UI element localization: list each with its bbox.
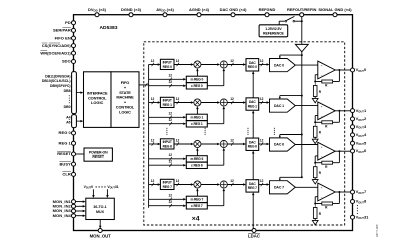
svg-text:DB11(DIN/SDA): DB11(DIN/SDA) xyxy=(45,74,70,78)
svg-text:12: 12 xyxy=(176,179,180,183)
wire: amp output to VOUT7 pin xyxy=(335,191,350,193)
signal ground symbol channel 6 xyxy=(312,180,318,184)
wire: m REG 7 to multiplier xyxy=(196,190,198,196)
block: INTERFACE CONTROL LOGIC xyxy=(84,72,112,128)
svg-text:DB0: DB0 xyxy=(64,105,71,109)
svg-text:12: 12 xyxy=(260,138,264,142)
feedback resistor R channel 6 xyxy=(322,161,333,164)
A bus arrow into interface logic xyxy=(76,120,81,122)
node: reference tap channel 7 xyxy=(301,176,303,178)
svg-text:12: 12 xyxy=(169,74,173,78)
block: FIFO + STATE MACHINE + CONTROL LOGIC xyxy=(111,72,139,128)
svg-text:SIGNAL GND (×4): SIGNAL GND (×4) xyxy=(318,7,352,12)
svg-text:MON_IN4: MON_IN4 xyxy=(53,213,72,218)
feedback resistor R channel 1 xyxy=(322,121,333,124)
wire: MON_IN pin into MUX (y=206.3) xyxy=(75,205,83,207)
wire: bus to input reg 7 xyxy=(149,184,159,186)
wire: attenuator to signal ground channel 1 xyxy=(314,137,316,139)
ellipsis: VOUT8..VOUT31 xyxy=(357,205,358,206)
svg-text:−: − xyxy=(321,154,323,158)
svg-text:12: 12 xyxy=(176,59,180,63)
wire: bus to input reg 0 xyxy=(149,64,159,66)
svg-text:−: − xyxy=(321,73,323,77)
chip outer boundary box xyxy=(74,15,353,231)
register INPUT REG 7 xyxy=(160,179,174,189)
svg-text:12: 12 xyxy=(260,97,264,101)
wire: DAC 0 to output amp xyxy=(295,64,318,66)
svg-text:12: 12 xyxy=(260,179,264,183)
svg-text:REG 0: REG 0 xyxy=(163,65,172,69)
wire: input reg 6 to multiplier xyxy=(174,143,192,145)
wire: attenuator to signal ground channel 7 xyxy=(314,219,316,221)
register m REG 1 xyxy=(186,114,207,120)
wire: m REG 6 input xyxy=(149,158,184,160)
pin VOUT0 (right) xyxy=(351,68,355,72)
svg-text:RESET: RESET xyxy=(92,155,105,159)
svg-text:REG 0: REG 0 xyxy=(59,130,72,135)
svg-text:c REG 7: c REG 7 xyxy=(191,204,203,208)
register c REG 0 xyxy=(186,83,207,89)
svg-text:REFOUT/REFIN: REFOUT/REFIN xyxy=(287,7,316,12)
wire: attenuator to signal ground channel 0 xyxy=(314,97,316,99)
wire: RESET pin to power-on reset block xyxy=(75,153,84,155)
wire: multiplier to adder channel 1 xyxy=(201,102,218,104)
signal ground symbol channel 0 xyxy=(312,98,318,102)
wire: reference distribution line xyxy=(301,52,303,178)
svg-text:MON_OUT: MON_OUT xyxy=(90,233,112,238)
svg-text:REG 1: REG 1 xyxy=(163,103,172,107)
attenuator resistor R channel 1 xyxy=(314,122,316,126)
wire: VOUT31 into MUX xyxy=(106,189,108,196)
svg-text:CS(SYNC/AD0): CS(SYNC/AD0) xyxy=(42,43,72,48)
svg-text:DAC GND (×4): DAC GND (×4) xyxy=(220,7,247,12)
wire: reference line down to buffer xyxy=(301,21,303,44)
svg-text:12: 12 xyxy=(230,59,234,63)
svg-text:AGND (×4): AGND (×4) xyxy=(189,7,210,12)
pin RESET (left) xyxy=(72,152,76,156)
DAC 7 xyxy=(270,181,296,194)
svg-text:×4: ×4 xyxy=(192,216,200,223)
svg-text:VOUT31: VOUT31 xyxy=(107,185,118,190)
register INPUT REG 0 xyxy=(160,59,174,69)
svg-text:DGND (×3): DGND (×3) xyxy=(121,7,142,12)
wire: c REG 1 to adder xyxy=(207,123,224,125)
pin AGND (top) xyxy=(197,13,201,17)
wire: input reg 1 to multiplier xyxy=(174,102,192,104)
svg-text:12: 12 xyxy=(151,179,155,183)
adder (+) channel 6 xyxy=(220,140,227,147)
node: feedback tap channel 1 xyxy=(338,110,340,112)
svg-text:VOUT0: VOUT0 xyxy=(84,185,94,190)
wire: feedback loop channel 0 xyxy=(338,70,340,82)
block: 36-TO-1 MUX xyxy=(86,198,115,219)
register m REG 0 xyxy=(186,76,207,82)
svg-text:LOGIC: LOGIC xyxy=(91,100,104,105)
wire: MON_IN pin into MUX (y=215.7) xyxy=(75,215,83,217)
node: switch junction xyxy=(301,20,303,22)
wire: amp output to VOUT6 pin xyxy=(335,150,350,152)
pin MON_IN3 (left) xyxy=(72,209,76,213)
wire: input reg 0 to multiplier xyxy=(174,64,192,66)
wire: FIFO output bus stub xyxy=(139,84,149,86)
svg-text:m REG 1: m REG 1 xyxy=(190,116,203,120)
wire: multiplier to adder channel 0 xyxy=(201,64,218,66)
pin REFOUT (top) xyxy=(300,13,304,17)
wire: DAC 1 to output amp xyxy=(295,105,318,107)
wire: multiplier to adder channel 6 xyxy=(201,143,218,145)
wire: reference into DAC 6 xyxy=(280,134,302,136)
svg-text:12: 12 xyxy=(151,138,155,142)
svg-text:DVDD (×3): DVDD (×3) xyxy=(88,7,107,13)
svg-text:DB10(SCLK/SCL): DB10(SCLK/SCL) xyxy=(42,79,71,83)
wire: DAC REG 1 to DAC 1 xyxy=(259,102,268,104)
pin VOUT1 (right) xyxy=(351,109,355,113)
svg-text:CLR: CLR xyxy=(62,172,70,177)
svg-text:POWER-ON: POWER-ON xyxy=(89,150,108,154)
ellipsis: more channels (m/c reg column) xyxy=(205,128,206,129)
svg-text:REG 0: REG 0 xyxy=(248,65,257,69)
wire: reference into DAC 7 xyxy=(280,176,302,178)
wire: multiplier to adder channel 7 xyxy=(201,184,218,186)
pin DVDD (top) xyxy=(95,13,99,17)
pin REG0 (left) xyxy=(72,131,76,135)
pin SIGNALGND (top) xyxy=(333,13,337,17)
svg-text:+: + xyxy=(321,105,323,109)
register c REG 7 xyxy=(186,203,207,209)
register DAC REG 7 xyxy=(246,180,259,192)
wire: MUX to MON_OUT xyxy=(99,220,101,227)
switch arm xyxy=(287,16,295,20)
pin MON_IN4 (left) xyxy=(72,214,76,218)
svg-text:12: 12 xyxy=(169,160,173,164)
wire: feedback to inverting input channel 6 xyxy=(315,162,322,164)
register DAC REG 1 xyxy=(246,98,259,110)
pin VOUT8 (right) xyxy=(351,200,355,204)
pin WR (left) xyxy=(72,51,76,55)
register c REG 1 xyxy=(186,121,207,127)
pin BUSY (left) xyxy=(72,162,76,166)
svg-text:REG 1: REG 1 xyxy=(59,141,72,146)
wire: feedback to inverting input channel 7 xyxy=(315,203,322,205)
op-amp output buffer channel 1 xyxy=(318,102,335,120)
pin MON_OUT (bottom) xyxy=(98,229,102,233)
block: 1.25V/2.5V REFERENCE xyxy=(259,25,288,37)
op-amp output buffer channel 7 xyxy=(318,183,335,201)
wire: feedback loop channel 7 xyxy=(338,192,340,204)
wire: c REG 7 to adder xyxy=(207,205,224,207)
svg-text:AVDD (×4): AVDD (×4) xyxy=(156,7,174,13)
node: reference tap channel 0 xyxy=(301,54,303,56)
ellipsis DB pins xyxy=(69,95,70,96)
ellipsis: more channels (dac column) xyxy=(274,128,275,129)
adder (+) channel 7 xyxy=(220,181,227,188)
wire: m REG 6 to multiplier xyxy=(196,150,198,156)
wire: adder to DAC REG 7 xyxy=(227,184,243,186)
pin VOUT3 (right) xyxy=(351,125,355,129)
DAC 6 xyxy=(270,138,296,151)
node: attenuator tap channel 1 xyxy=(314,121,316,123)
pin VOUT2 (right) xyxy=(351,117,355,121)
wire: reference into DAC 0 xyxy=(280,54,302,56)
svg-text:LDAC: LDAC xyxy=(248,233,260,238)
svg-text:DAC 7: DAC 7 xyxy=(274,186,284,190)
svg-text:12: 12 xyxy=(176,138,180,142)
wire: c REG 7 input xyxy=(149,205,184,207)
register c REG 6 xyxy=(186,162,207,168)
node: reference tap channel 1 xyxy=(301,95,303,97)
pin CLR (left) xyxy=(72,172,76,176)
svg-text:12: 12 xyxy=(169,194,173,198)
wire: DAC REG 6 to DAC 6 xyxy=(259,143,268,145)
pin DACGND (top) xyxy=(231,13,235,17)
wire: adder to DAC REG 0 xyxy=(227,64,243,66)
register INPUT REG 1 xyxy=(160,97,174,107)
pin FIFOEN (left) xyxy=(72,36,76,40)
svg-text:12: 12 xyxy=(151,97,155,101)
svg-text:+: + xyxy=(321,64,323,68)
wire: DAC 7 to output amp xyxy=(295,186,318,188)
DAC 1 xyxy=(270,99,296,112)
svg-text:SDO: SDO xyxy=(62,59,71,64)
svg-text:FIFO EN: FIFO EN xyxy=(55,35,71,40)
svg-text:12: 12 xyxy=(151,59,155,63)
wire: LDAC distribution xyxy=(252,195,254,229)
ellipsis: more channels (dac reg column) xyxy=(247,128,248,129)
svg-text:12: 12 xyxy=(230,138,234,142)
pin PD (left) xyxy=(72,21,76,25)
svg-text:m REG 0: m REG 0 xyxy=(190,78,203,82)
svg-text:12: 12 xyxy=(169,112,173,116)
wire: junction to switch contact xyxy=(295,20,302,22)
switch contact (left) xyxy=(285,20,287,22)
dashed channel-group box xyxy=(144,42,345,225)
svg-text:36-TO-1: 36-TO-1 xyxy=(93,205,106,209)
DB bus arrow into interface logic xyxy=(76,92,81,94)
adder (+) channel 1 xyxy=(220,99,227,106)
DAC 0 xyxy=(270,59,296,72)
wire: VOUT0 into MUX xyxy=(92,189,94,196)
pin LDAC (bottom) xyxy=(252,229,256,233)
pin MON_IN2 (left) xyxy=(72,204,76,208)
wire: bus to input reg 6 xyxy=(149,143,159,145)
svg-text:REG 1: REG 1 xyxy=(248,104,257,108)
node: feedback tap channel 0 xyxy=(338,69,340,71)
pin SDO (left) xyxy=(72,60,76,64)
wire: m REG 0 to multiplier xyxy=(196,70,198,76)
dashes between VOUT0 and VOUT31 xyxy=(96,186,107,188)
wire: c REG 0 to adder xyxy=(207,85,224,87)
reference buffer amp xyxy=(295,44,308,51)
ellipsis A pins xyxy=(68,118,71,121)
svg-text:DB8: DB8 xyxy=(64,89,71,93)
wire: m REG 1 to multiplier xyxy=(196,108,198,114)
svg-text:REG 7: REG 7 xyxy=(248,186,257,190)
wire: bus to input reg 1 xyxy=(149,102,159,104)
wire: feedback to inverting input channel 1 xyxy=(315,121,322,123)
node: feedback tap channel 7 xyxy=(338,191,340,193)
svg-text:DAC 1: DAC 1 xyxy=(274,104,284,108)
svg-text:m REG 6: m REG 6 xyxy=(190,157,203,161)
pin VOUT4 (right) xyxy=(351,133,355,137)
wire: c REG 6 to adder xyxy=(207,164,224,166)
svg-text:m REG 7: m REG 7 xyxy=(190,198,203,202)
svg-text:A0: A0 xyxy=(66,121,71,125)
op-amp output buffer channel 0 xyxy=(318,61,335,79)
wire: DAC 6 to output amp xyxy=(295,144,318,146)
A address bus collector xyxy=(72,115,77,128)
wire: attenuator to signal ground channel 6 xyxy=(314,178,316,180)
svg-text:AD5383: AD5383 xyxy=(100,25,118,31)
attenuator resistor R channel 0 xyxy=(314,82,316,86)
wire: c REG 0 input xyxy=(149,85,184,87)
signal ground symbol channel 7 xyxy=(312,220,318,224)
svg-text:04777-003: 04777-003 xyxy=(375,224,379,237)
pin VOUT5 (right) xyxy=(351,141,355,145)
feedback resistor R channel 7 xyxy=(322,202,333,205)
pin REG1 (left) xyxy=(72,141,76,145)
DB data bus collector xyxy=(72,72,77,114)
svg-text:−: − xyxy=(321,114,323,118)
svg-text:c REG 1: c REG 1 xyxy=(191,122,203,126)
pin VOUT31 (right) xyxy=(351,215,355,219)
svg-text:12: 12 xyxy=(230,179,234,183)
wire: DAC REG 7 to DAC 7 xyxy=(259,184,268,186)
attenuator resistor R channel 6 xyxy=(314,163,316,167)
register m REG 7 xyxy=(186,196,207,202)
svg-text:12: 12 xyxy=(176,97,180,101)
adder (+) channel 0 xyxy=(220,61,227,68)
wire: amp output to VOUT1 pin xyxy=(335,110,350,112)
wire: feedback loop channel 6 xyxy=(338,151,340,163)
svg-text:REG 6: REG 6 xyxy=(248,145,257,149)
wire: amp output to VOUT0 pin xyxy=(335,69,350,71)
register DAC REG 6 xyxy=(246,138,259,150)
svg-text:c REG 6: c REG 6 xyxy=(191,164,203,168)
svg-text:A4: A4 xyxy=(66,115,71,119)
vertical distribution bus xyxy=(148,65,150,208)
ellipsis: more channels (input reg column) xyxy=(166,128,167,129)
register m REG 6 xyxy=(186,156,207,162)
svg-text:SER/PAR: SER/PAR xyxy=(53,28,71,33)
signal ground symbol channel 1 xyxy=(312,139,318,143)
multiplier (x) channel 0 xyxy=(194,61,201,68)
multiplier (x) channel 1 xyxy=(194,99,201,106)
svg-text:+: + xyxy=(321,145,323,149)
svg-text:+: + xyxy=(321,186,323,190)
wire: REFOUT/REFIN pin stem xyxy=(301,17,303,22)
svg-text:−: − xyxy=(321,195,323,199)
svg-text:REG 6: REG 6 xyxy=(163,144,172,148)
svg-text:REFGND: REFGND xyxy=(259,7,276,12)
svg-text:DAC 0: DAC 0 xyxy=(274,63,284,67)
node: reference tap channel 6 xyxy=(301,134,303,136)
node: attenuator tap channel 0 xyxy=(314,81,316,83)
svg-text:BUSY: BUSY xyxy=(59,161,71,166)
svg-text:c REG 0: c REG 0 xyxy=(191,84,203,88)
wire: feedback loop channel 1 xyxy=(338,111,340,123)
pin DGND (top) xyxy=(129,13,133,17)
wire: MON_IN pin into MUX (y=211.0) xyxy=(75,210,83,212)
pin REFGND (top) xyxy=(265,13,269,17)
wire: DAC REG 0 to DAC 0 xyxy=(259,64,268,66)
pin VOUT7 (right) xyxy=(351,190,355,194)
wire: switch to reference block xyxy=(279,20,285,22)
pin AVDD (top) xyxy=(163,13,167,17)
register INPUT REG 6 xyxy=(160,139,174,149)
wire: MON_IN pin into MUX (y=201.6) xyxy=(75,201,83,203)
pin MON_IN1 (left) xyxy=(72,200,76,204)
wire: adder to DAC REG 1 xyxy=(227,102,243,104)
wire: c REG 1 input xyxy=(149,123,184,125)
svg-text:12: 12 xyxy=(169,80,173,84)
node: attenuator tap channel 6 xyxy=(314,162,316,164)
svg-text:PD: PD xyxy=(65,20,71,25)
wire: adder to DAC REG 6 xyxy=(227,143,243,145)
svg-text:DAC 6: DAC 6 xyxy=(274,143,284,147)
node: attenuator tap channel 7 xyxy=(314,203,316,205)
svg-text:12: 12 xyxy=(260,59,264,63)
svg-text:WR(DCEN/AD1): WR(DCEN/AD1) xyxy=(40,50,71,55)
wire: m REG 0 input xyxy=(149,78,184,80)
svg-text:12: 12 xyxy=(169,118,173,122)
svg-text:RESET: RESET xyxy=(57,151,71,156)
block: POWER-ON RESET xyxy=(84,148,112,161)
register DAC REG 0 xyxy=(246,59,259,71)
svg-text:REFERENCE: REFERENCE xyxy=(263,32,284,36)
multiplier (x) channel 6 xyxy=(194,140,201,147)
switch contact (right) xyxy=(293,20,295,22)
svg-text:12: 12 xyxy=(230,97,234,101)
wire: m REG 1 input xyxy=(149,116,184,118)
wire: feedback to inverting input channel 0 xyxy=(315,81,322,83)
wire: m REG 7 input xyxy=(149,198,184,200)
op-amp output buffer channel 6 xyxy=(318,142,335,160)
svg-text:1.25V/2.5V: 1.25V/2.5V xyxy=(265,27,282,31)
svg-text:MUX: MUX xyxy=(96,210,105,214)
pin SERPAR (left) xyxy=(72,28,76,32)
feedback resistor R channel 0 xyxy=(322,80,333,83)
svg-text:DB9(SPI/I²C): DB9(SPI/I²C) xyxy=(50,84,71,88)
pin VOUT6 (right) xyxy=(351,149,355,153)
multiplier (x) channel 7 xyxy=(194,181,201,188)
wire: c REG 6 input xyxy=(149,164,184,166)
attenuator resistor R channel 7 xyxy=(314,204,316,208)
svg-text:12: 12 xyxy=(169,200,173,204)
svg-text:12: 12 xyxy=(169,153,173,157)
wire: reference into DAC 1 xyxy=(280,95,302,97)
pin CS (left) xyxy=(72,44,76,48)
node: feedback tap channel 6 xyxy=(338,150,340,152)
svg-text:LOGIC: LOGIC xyxy=(119,109,131,114)
svg-text:REG 7: REG 7 xyxy=(163,185,172,189)
wire: input reg 7 to multiplier xyxy=(174,184,192,186)
